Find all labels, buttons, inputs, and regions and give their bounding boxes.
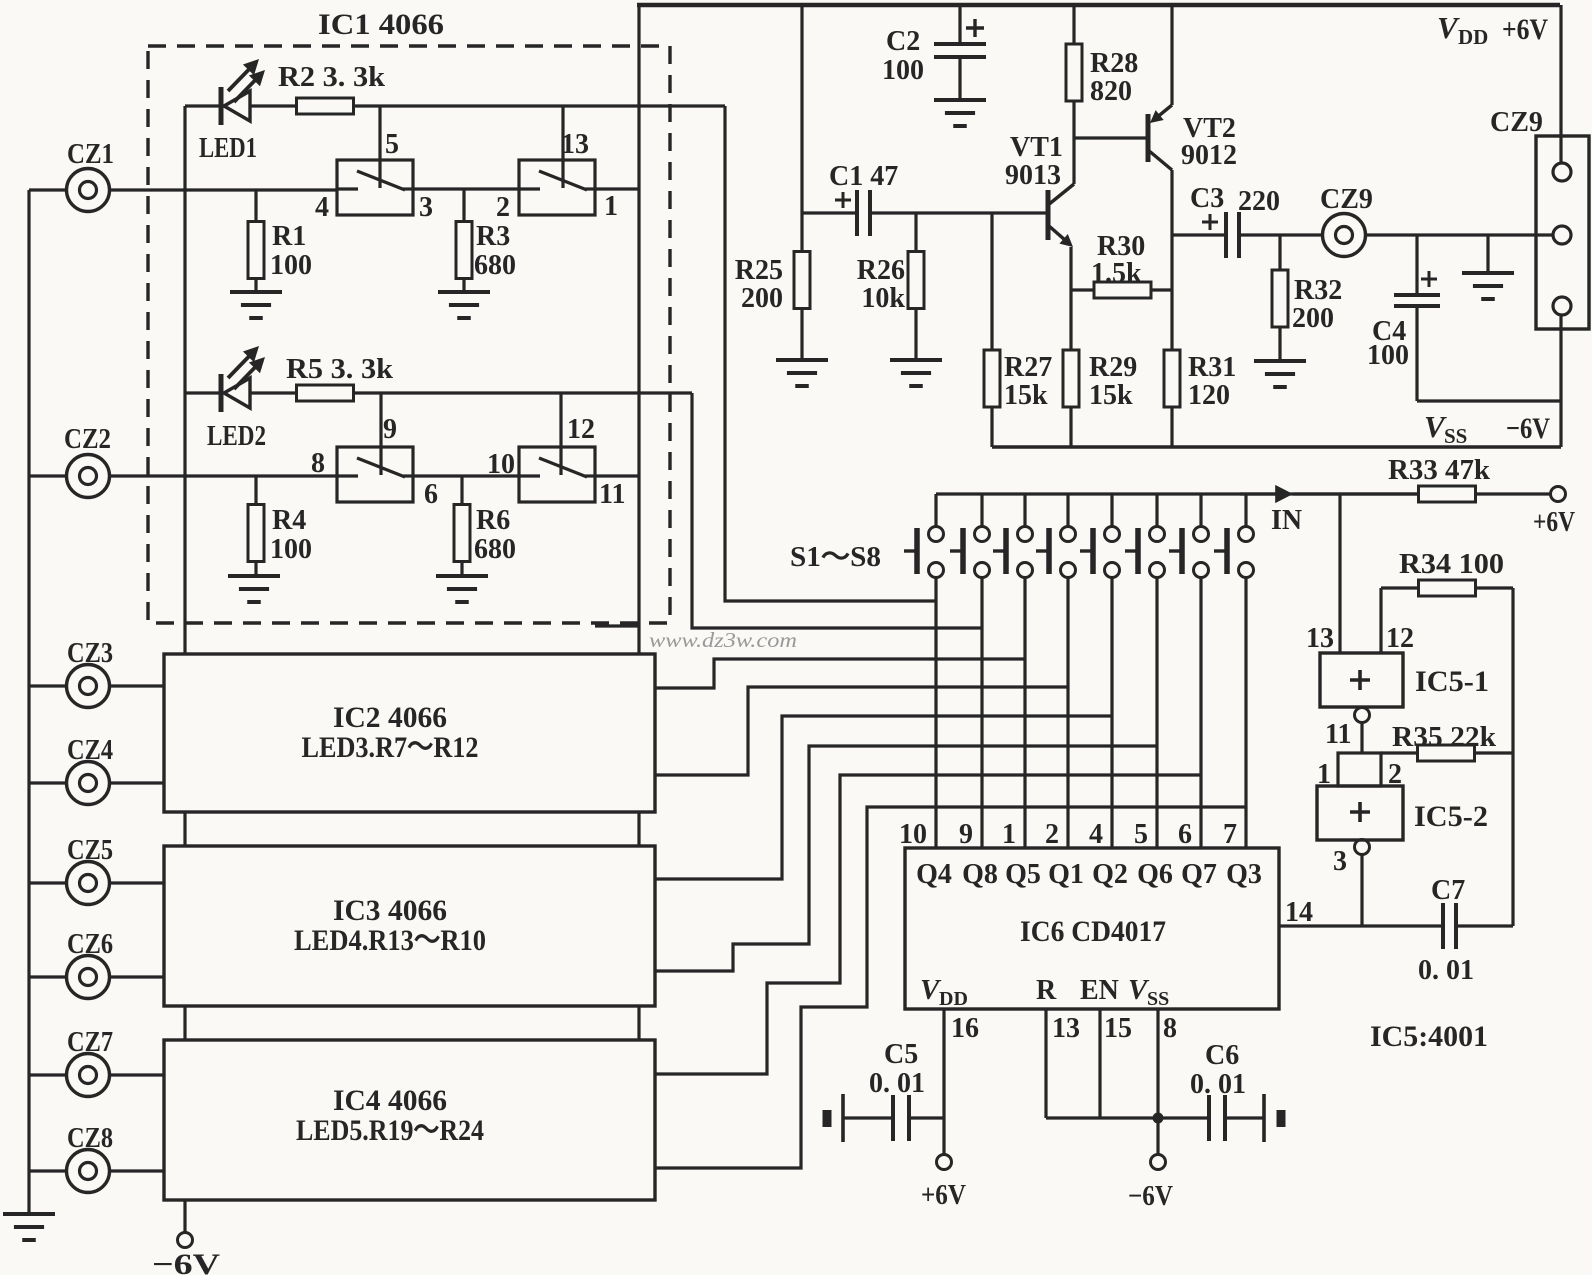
svg-text:www.dz3w.com: www.dz3w.com (649, 628, 797, 652)
svg-text:0. 01: 0. 01 (1418, 955, 1474, 986)
svg-text:200: 200 (741, 283, 783, 314)
svg-text:C5: C5 (884, 1039, 918, 1070)
svg-text:LED2: LED2 (207, 421, 266, 452)
svg-text:3: 3 (1333, 846, 1347, 877)
svg-text:7: 7 (1223, 819, 1237, 850)
svg-text:R4: R4 (272, 505, 306, 536)
svg-text:9013: 9013 (1005, 160, 1061, 191)
svg-text:IC4 4066: IC4 4066 (333, 1084, 447, 1117)
svg-text:Q8: Q8 (962, 859, 998, 890)
svg-text:LED5.R19～R24: LED5.R19～R24 (296, 1114, 484, 1147)
svg-text:R33 47k: R33 47k (1388, 455, 1490, 486)
svg-text:SS: SS (1444, 424, 1467, 448)
svg-text:IC5-2: IC5-2 (1414, 800, 1488, 833)
svg-text:R6: R6 (476, 505, 510, 536)
svg-text:Q1: Q1 (1048, 859, 1084, 890)
svg-text:C1 47: C1 47 (829, 161, 898, 192)
svg-text:Q3: Q3 (1226, 859, 1262, 890)
svg-text:220: 220 (1238, 186, 1280, 217)
svg-text:R2 3. 3k: R2 3. 3k (278, 62, 385, 93)
svg-text:SS: SS (1147, 988, 1169, 1010)
svg-text:−6V: −6V (1506, 412, 1550, 445)
svg-text:4: 4 (315, 192, 329, 223)
svg-text:DD: DD (939, 988, 968, 1010)
svg-text:100: 100 (882, 55, 924, 86)
svg-text:CZ4: CZ4 (67, 735, 113, 766)
svg-text:LED4.R13～R10: LED4.R13～R10 (294, 924, 486, 957)
svg-text:S1～S8: S1～S8 (790, 542, 881, 573)
svg-text:1: 1 (604, 191, 618, 222)
svg-text:R27: R27 (1004, 352, 1052, 383)
svg-text:15k: 15k (1004, 380, 1048, 411)
svg-text:IC1 4066: IC1 4066 (318, 8, 444, 41)
svg-text:680: 680 (474, 534, 516, 565)
svg-text:R: R (1036, 975, 1057, 1006)
svg-text:R5 3. 3k: R5 3. 3k (286, 354, 393, 385)
svg-text:10: 10 (899, 819, 927, 850)
svg-text:13: 13 (1052, 1013, 1080, 1044)
svg-text:C2: C2 (886, 26, 920, 57)
svg-text:100: 100 (270, 534, 312, 565)
svg-text:2: 2 (1045, 819, 1059, 850)
svg-text:CZ8: CZ8 (67, 1123, 113, 1154)
svg-text:IC3 4066: IC3 4066 (333, 894, 447, 927)
svg-text:R25: R25 (735, 255, 783, 286)
svg-text:3: 3 (419, 192, 433, 223)
svg-text:LED3.R7～R12: LED3.R7～R12 (302, 731, 479, 764)
svg-text:11: 11 (1325, 719, 1351, 750)
svg-text:CZ3: CZ3 (67, 638, 113, 669)
svg-text:100: 100 (1367, 340, 1409, 371)
svg-text:1.5k: 1.5k (1091, 258, 1142, 289)
svg-text:CZ7: CZ7 (67, 1027, 113, 1058)
svg-text:+6V: +6V (1533, 507, 1575, 538)
svg-text:11: 11 (599, 479, 625, 510)
svg-text:Q2: Q2 (1092, 859, 1128, 890)
svg-text:CZ2: CZ2 (64, 424, 111, 455)
svg-text:0. 01: 0. 01 (869, 1068, 925, 1099)
svg-text:5: 5 (1134, 819, 1148, 850)
svg-text:1: 1 (1002, 819, 1016, 850)
svg-text:DD: DD (1458, 25, 1488, 49)
svg-text:R26: R26 (857, 255, 905, 286)
svg-text:CZ1: CZ1 (67, 139, 114, 170)
svg-text:Q4: Q4 (916, 859, 952, 890)
svg-text:820: 820 (1090, 76, 1132, 107)
svg-text:8: 8 (1163, 1013, 1177, 1044)
svg-text:R35 22k: R35 22k (1392, 722, 1496, 753)
svg-text:15: 15 (1104, 1013, 1132, 1044)
svg-text:C6: C6 (1205, 1040, 1239, 1071)
svg-text:13: 13 (1306, 623, 1334, 654)
svg-text:9: 9 (383, 414, 397, 445)
svg-text:9: 9 (959, 819, 973, 850)
svg-text:2: 2 (496, 192, 510, 223)
svg-text:10k: 10k (861, 283, 905, 314)
svg-text:C3: C3 (1190, 183, 1224, 214)
svg-text:9012: 9012 (1181, 140, 1237, 171)
svg-text:IC6 CD4017: IC6 CD4017 (1020, 915, 1166, 948)
svg-text:CZ5: CZ5 (67, 835, 113, 866)
svg-text:14: 14 (1285, 897, 1313, 928)
svg-text:IC5-1: IC5-1 (1415, 665, 1489, 698)
svg-text:Q5: Q5 (1005, 859, 1041, 890)
svg-text:IN: IN (1271, 505, 1302, 536)
svg-text:+6V: +6V (1502, 13, 1548, 46)
svg-text:R1: R1 (272, 221, 306, 252)
svg-text:+6V: +6V (921, 1180, 966, 1211)
svg-text:IC2 4066: IC2 4066 (333, 701, 447, 734)
svg-text:680: 680 (474, 250, 516, 281)
svg-text:6: 6 (1178, 819, 1192, 850)
svg-text:15k: 15k (1089, 380, 1133, 411)
svg-text:10: 10 (487, 449, 515, 480)
svg-text:C7: C7 (1431, 875, 1465, 906)
svg-text:EN: EN (1080, 975, 1119, 1006)
svg-text:12: 12 (567, 414, 595, 445)
svg-text:12: 12 (1386, 623, 1414, 654)
svg-text:CZ9: CZ9 (1490, 107, 1543, 138)
svg-text:200: 200 (1292, 303, 1334, 334)
svg-text:IC5:4001: IC5:4001 (1370, 1020, 1488, 1053)
svg-text:VT1: VT1 (1010, 132, 1063, 163)
svg-text:0. 01: 0. 01 (1190, 1069, 1246, 1100)
svg-text:LED1: LED1 (199, 133, 257, 164)
svg-text:R29: R29 (1089, 352, 1137, 383)
svg-text:5: 5 (385, 129, 399, 160)
svg-text:R34 100: R34 100 (1399, 549, 1504, 580)
svg-text:16: 16 (951, 1013, 979, 1044)
svg-text:CZ9: CZ9 (1320, 184, 1373, 215)
svg-text:8: 8 (311, 448, 325, 479)
svg-text:R32: R32 (1294, 275, 1342, 306)
svg-text:R3: R3 (476, 221, 510, 252)
svg-text:R31: R31 (1188, 352, 1236, 383)
svg-text:100: 100 (270, 250, 312, 281)
svg-text:120: 120 (1188, 380, 1230, 411)
svg-text:Q6: Q6 (1137, 859, 1173, 890)
svg-text:R28: R28 (1090, 48, 1138, 79)
svg-text:−6V: −6V (1128, 1181, 1173, 1212)
svg-text:V: V (1437, 10, 1460, 45)
svg-text:6: 6 (424, 479, 438, 510)
svg-text:4: 4 (1089, 819, 1103, 850)
svg-text:13: 13 (561, 129, 589, 160)
svg-text:−6V: −6V (152, 1248, 220, 1275)
svg-text:CZ6: CZ6 (67, 929, 113, 960)
svg-text:Q7: Q7 (1181, 859, 1217, 890)
